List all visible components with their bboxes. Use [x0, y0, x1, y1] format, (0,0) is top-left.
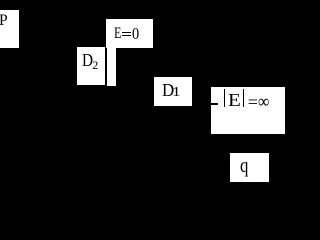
- right bar of |E|: [243, 89, 244, 108]
- label box E=0: [106, 19, 154, 48]
- label box |E|=infinity: [211, 87, 286, 134]
- label box q: [230, 153, 269, 182]
- text 0 of E=0: [132, 25, 139, 42]
- text D2: [82, 52, 93, 70]
- label box D1: [154, 77, 193, 106]
- text q: [240, 155, 248, 177]
- left bar of |E|: [224, 89, 225, 108]
- text E of E=0: [114, 26, 121, 42]
- low dash before |E|: [211, 103, 219, 105]
- text E of |E|: [228, 91, 241, 109]
- subscript 2: [92, 59, 98, 71]
- equals sign: [248, 93, 258, 111]
- text D1: [162, 81, 174, 99]
- equals sign of E=0 (top bar): [122, 32, 132, 33]
- white strip below E=0 box: [107, 47, 116, 86]
- label box P: [0, 10, 19, 48]
- equals sign of E=0 (bottom bar): [122, 35, 132, 36]
- infinity sign: [258, 92, 269, 110]
- subscript 1: [172, 85, 181, 99]
- text P: [0, 13, 8, 29]
- label box D2: [77, 47, 105, 85]
